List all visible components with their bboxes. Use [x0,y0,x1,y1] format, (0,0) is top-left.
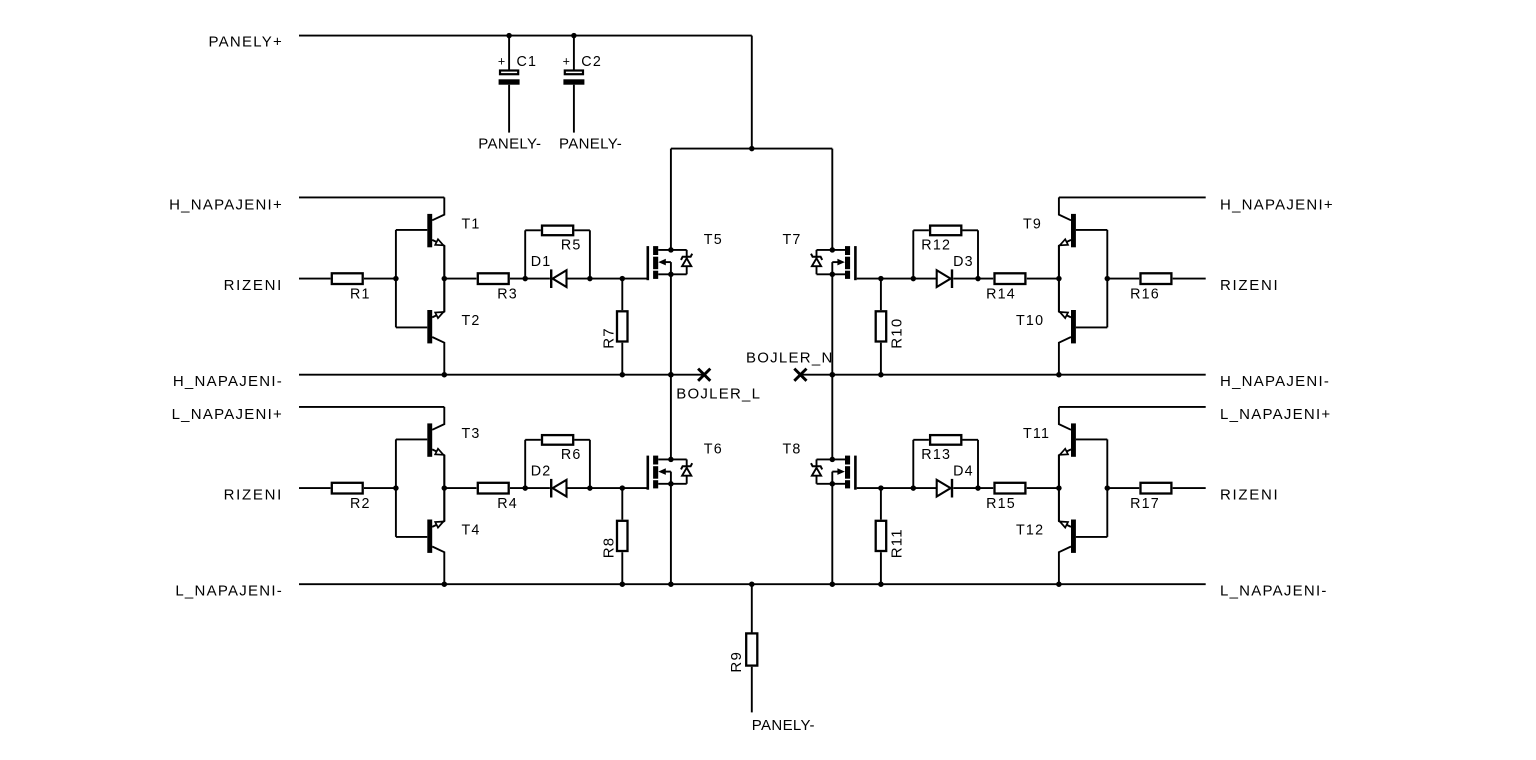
svg-text:R16: R16 [1130,286,1160,302]
node BOJLER_L [676,369,761,403]
svg-text:+: + [498,54,505,68]
wire R5 right top [574,229,590,231]
svg-text:T4: T4 [462,523,481,539]
svg-text:R6: R6 [561,447,582,463]
wire RIZENI upper-right [1173,278,1206,280]
wire R7 bottom [621,343,623,375]
net label H_NAPAJENI+ right [1220,197,1334,214]
wire diode to gate node [913,487,936,489]
svg-text:H_NAPAJENI+: H_NAPAJENI+ [169,197,283,214]
wire R9 bottom [751,667,753,713]
wire base riser [395,439,397,537]
wire T5 drain riser [670,149,672,250]
net label L_NAPAJENI- left [175,582,283,599]
wire gate node to gate [622,278,646,280]
wire base riser [1106,230,1108,328]
wire MOSFET source drop [670,274,672,374]
resistor R7 [600,311,627,349]
resistor R4 [478,483,518,512]
junction diode cathode node [587,276,593,282]
wire R13 right top [913,439,929,441]
wire RIZENI lower-left [299,487,331,489]
svg-text:R15: R15 [986,496,1016,512]
junction diode anode node [975,485,981,491]
svg-text:R4: R4 [497,496,518,512]
wire R16 to base node [1107,278,1139,280]
wire R6 right top [574,439,590,441]
junction diode anode node [522,276,528,282]
svg-text:L_NAPAJENI-: L_NAPAJENI- [175,582,283,599]
resistor R13 [921,435,961,463]
wire R13 left top [962,439,978,441]
wire R14 to diode node [953,278,993,280]
wire R10 top [880,279,882,311]
junction gate resistor top [620,485,626,491]
wire L_NAPAJENI+ left rail [299,406,444,408]
junction emitter node [1056,485,1062,491]
junction diode cathode node [911,276,917,282]
wire R9 top [751,584,753,632]
svg-text:R14: R14 [986,286,1016,302]
diode D1 [531,254,567,288]
resistor R8 [600,521,627,559]
wire R12 left riser [977,230,979,278]
wire diode to gate node [567,487,590,489]
transistor T3 [396,407,481,488]
junction C1 [506,33,512,39]
wire H_NAPAJENI- left rail [299,374,704,376]
junction source at rail [668,372,674,378]
svg-text:PANELY-: PANELY- [752,717,815,734]
svg-text:D1: D1 [531,254,552,270]
junction R9 top [749,581,755,587]
svg-text:T1: T1 [462,216,481,232]
wire R13 right riser [912,440,914,488]
svg-text:R7: R7 [600,327,617,349]
wire emitter node to base resistor [444,487,476,489]
resistor R1 [332,273,371,302]
wire PANELY+ drop to bridge [751,36,753,149]
MOSFET T6 [647,441,723,489]
wire H_NAPAJENI+ left rail [299,196,444,198]
resistor R6 [542,435,582,463]
wire base riser [395,230,397,328]
svg-text:RIZENI: RIZENI [1220,277,1279,294]
capacitor C1 [498,36,537,133]
junction diode anode node [522,485,528,491]
resistor R17 [1130,483,1171,512]
transistor T1 [396,197,481,278]
junction R8 bottom [620,581,626,587]
junction R11 bottom [878,581,884,587]
wire gate node to gate [857,487,881,489]
svg-text:RIZENI: RIZENI [224,277,283,294]
junction base node [1105,485,1111,491]
MOSFET T7 [783,232,857,280]
wire RIZENI lower-right [1173,487,1206,489]
junction diode cathode node [587,485,593,491]
svg-text:BOJLER_L: BOJLER_L [676,386,761,403]
svg-text:R12: R12 [921,238,951,254]
wire base riser [1106,439,1108,537]
junction bridge top [749,146,755,152]
svg-text:C2: C2 [581,54,602,70]
resistor R2 [332,483,371,512]
junction C2 [571,33,577,39]
wire to gate resistor node [881,278,913,280]
wire R5 left top [525,229,541,231]
resistor R15 [986,483,1025,512]
junction MOSFET source [668,481,674,487]
svg-text:R13: R13 [921,447,951,463]
junction gate resistor top [878,276,884,282]
junction base node [393,485,399,491]
svg-text:R1: R1 [350,286,371,302]
wire MOSFET source drop [831,274,833,374]
net label RIZENI lower-left [224,486,283,503]
wire R8 top [621,488,623,519]
svg-text:T12: T12 [1016,523,1044,539]
svg-text:D4: D4 [953,464,974,480]
capacitor C2 [563,36,602,133]
resistor R5 [542,226,582,254]
junction emitter node [1056,276,1062,282]
svg-text:C1: C1 [517,54,538,70]
svg-text:R17: R17 [1130,496,1160,512]
junction R7 bottom [620,372,626,378]
resistor R10 [876,311,906,349]
svg-text:R8: R8 [600,537,617,559]
wire R13 left riser [977,440,979,488]
junction MOSFET drain [668,247,674,253]
MOSFET T8 [783,441,857,489]
transistor T10 [1016,279,1107,375]
junction MOSFET drain [668,457,674,463]
transistor T9 [1023,197,1107,278]
wire emitter node vertical [443,246,445,312]
net label H_NAPAJENI- left [173,373,283,390]
junction lower transistor collector [1056,581,1062,587]
net label L_NAPAJENI+ left [172,406,283,423]
transistor T4 [396,488,481,584]
junction right column at H- rail [830,372,836,378]
diode D3 [937,254,974,288]
net label H_NAPAJENI+ left [169,197,283,214]
wire R5 right riser [589,230,591,278]
wire R7 top [621,279,623,311]
wire R6 left top [525,439,541,441]
wire to gate resistor node [590,487,622,489]
junction MOSFET drain [830,247,836,253]
svg-text:R9: R9 [728,651,745,673]
wire H_NAPAJENI+ right rail [1059,196,1206,198]
net label L_NAPAJENI- right [1220,582,1328,599]
wire T5 source to T6 drain [670,375,672,460]
MOSFET T5 [647,232,723,280]
svg-text:H_NAPAJENI+: H_NAPAJENI+ [1220,197,1334,214]
net label PANELY- bottom [752,717,815,734]
svg-text:L_NAPAJENI+: L_NAPAJENI+ [172,406,283,423]
node BOJLER_N [746,350,834,381]
net label H_NAPAJENI- right [1220,373,1330,390]
wire R2 to base node [364,487,396,489]
junction gate resistor top [620,276,626,282]
svg-text:BOJLER_N: BOJLER_N [746,350,834,367]
resistor R12 [921,226,961,254]
svg-text:L_NAPAJENI-: L_NAPAJENI- [1220,582,1328,599]
wire R6 left riser [524,440,526,488]
diode D4 [937,464,974,498]
junction base node [1105,276,1111,282]
wire R17 to base node [1107,487,1139,489]
wire R12 right riser [912,230,914,278]
resistor R14 [986,273,1025,302]
net label RIZENI upper-right [1220,277,1279,294]
wire MOSFET source drop [831,484,833,584]
net label L_NAPAJENI+ right [1220,406,1331,423]
wire R12 left top [962,229,978,231]
svg-text:D3: D3 [953,254,974,270]
svg-text:T2: T2 [462,313,481,329]
junction emitter node [442,276,448,282]
junction lower transistor collector [442,581,448,587]
wire gate node to gate [622,487,646,489]
svg-text:R5: R5 [561,238,582,254]
junction emitter node [442,485,448,491]
wire L_NAPAJENI+ right rail [1059,406,1206,408]
wire RIZENI upper-left [299,278,331,280]
svg-text:T5: T5 [704,232,723,248]
wire L_NAPAJENI- rail [299,583,1206,585]
wire R11 bottom [880,552,882,584]
wire R3 to diode node [510,278,550,280]
svg-text:T6: T6 [704,441,723,457]
wire gate node to gate [857,278,881,280]
svg-text:T9: T9 [1023,216,1042,232]
junction lower transistor collector [442,372,448,378]
wire emitter node to base resistor [1027,487,1059,489]
svg-text:T8: T8 [783,441,802,457]
transistor T11 [1023,407,1107,488]
wire R10 bottom [880,343,882,375]
net label PANELY- under C1 [478,136,541,153]
svg-text:D2: D2 [531,464,552,480]
wire PANELY+ rail [299,35,752,37]
svg-text:PANELY+: PANELY+ [209,33,283,50]
svg-text:R11: R11 [888,528,905,558]
wire R6 right riser [589,440,591,488]
net label RIZENI upper-left [224,277,283,294]
svg-text:T11: T11 [1023,426,1050,442]
wire H_NAPAJENI- right rail [800,374,1205,376]
junction source at rail [668,581,674,587]
wire R5 left riser [524,230,526,278]
svg-text:RIZENI: RIZENI [224,486,283,503]
net label PANELY+ [209,33,283,50]
svg-text:R10: R10 [888,318,905,349]
junction gate resistor top [878,485,884,491]
resistor R16 [1130,273,1171,302]
svg-text:R3: R3 [497,286,518,302]
junction diode anode node [975,276,981,282]
wire R1 to base node [364,278,396,280]
transistor T2 [396,279,481,375]
diode D2 [531,464,567,498]
wire to gate resistor node [590,278,622,280]
wire R15 to diode node [953,487,993,489]
wire T7 source to T8 drain [831,375,833,460]
wire to gate resistor node [881,487,913,489]
resistor R3 [478,273,518,302]
junction MOSFET source [668,272,674,278]
svg-text:PANELY-: PANELY- [478,136,541,153]
wire emitter node to base resistor [444,278,476,280]
resistor R11 [876,521,906,559]
svg-text:H_NAPAJENI-: H_NAPAJENI- [1220,373,1330,390]
junction MOSFET source [830,481,836,487]
wire bridge top horizontal [671,148,832,150]
svg-text:R2: R2 [350,496,371,512]
svg-text:T3: T3 [462,426,481,442]
junction left column at H- rail [668,372,674,378]
wire diode to gate node [913,278,936,280]
resistor R9 [728,633,758,672]
svg-text:RIZENI: RIZENI [1220,486,1279,503]
svg-text:+: + [563,54,570,68]
wire diode to gate node [567,278,590,280]
wire T7 drain riser [831,149,833,250]
wire emitter node vertical [1058,455,1060,521]
svg-text:PANELY-: PANELY- [559,136,622,153]
junction base node [393,276,399,282]
wire R4 to diode node [510,487,550,489]
junction R10 bottom [878,372,884,378]
svg-text:L_NAPAJENI+: L_NAPAJENI+ [1220,406,1331,423]
junction lower transistor collector [1056,372,1062,378]
junction source at rail [830,372,836,378]
wire emitter node vertical [1058,246,1060,312]
wire R11 top [880,488,882,519]
wire MOSFET source drop [670,484,672,584]
wire emitter node to base resistor [1027,278,1059,280]
junction MOSFET source [830,272,836,278]
junction MOSFET drain [830,457,836,463]
svg-text:H_NAPAJENI-: H_NAPAJENI- [173,373,283,390]
wire R8 bottom [621,552,623,584]
transistor T12 [1016,488,1107,584]
svg-text:T7: T7 [783,232,802,248]
net label RIZENI lower-right [1220,486,1279,503]
junction source at rail [830,581,836,587]
wire emitter node vertical [443,455,445,521]
junction diode cathode node [911,485,917,491]
wire R12 right top [913,229,929,231]
net label PANELY- under C2 [559,136,622,153]
svg-text:T10: T10 [1016,313,1044,329]
